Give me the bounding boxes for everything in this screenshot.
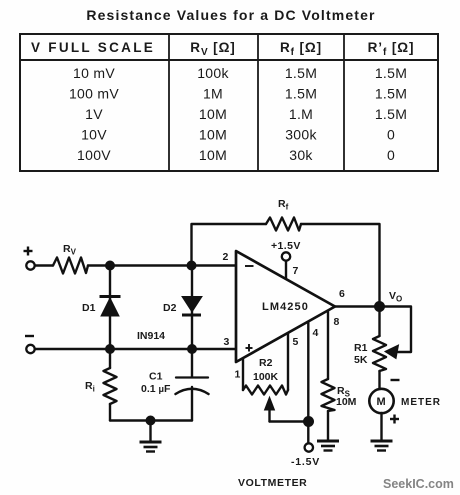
svg-text:Resistance Values for a DC Vol: Resistance Values for a DC Voltmeter xyxy=(86,7,375,23)
svg-text:4: 4 xyxy=(313,327,319,339)
svg-text:C1: C1 xyxy=(149,371,163,383)
svg-text:5K: 5K xyxy=(354,354,368,366)
svg-text:0.1 μF: 0.1 μF xyxy=(141,383,171,395)
svg-text:RV [Ω]: RV [Ω] xyxy=(190,40,235,58)
svg-text:10M: 10M xyxy=(199,106,227,122)
svg-text:D2: D2 xyxy=(163,302,177,314)
svg-text:10M: 10M xyxy=(199,127,227,143)
svg-text:1.5M: 1.5M xyxy=(285,86,317,102)
svg-text:300k: 300k xyxy=(285,127,317,143)
svg-text:100k: 100k xyxy=(197,65,229,81)
svg-text:D1: D1 xyxy=(82,302,96,314)
svg-text:1.M: 1.M xyxy=(289,106,313,122)
svg-text:1.5M: 1.5M xyxy=(375,106,407,122)
svg-text:IN914: IN914 xyxy=(137,330,165,342)
svg-text:VOLTMETER: VOLTMETER xyxy=(238,477,307,489)
svg-text:7: 7 xyxy=(293,265,299,277)
svg-text:6: 6 xyxy=(339,288,345,300)
svg-text:1.5M: 1.5M xyxy=(375,65,407,81)
svg-text:V FULL SCALE: V FULL SCALE xyxy=(31,40,155,55)
svg-text:+1.5V: +1.5V xyxy=(271,240,301,252)
svg-text:100 mV: 100 mV xyxy=(69,86,119,102)
svg-text:1.5M: 1.5M xyxy=(375,86,407,102)
svg-text:30k: 30k xyxy=(289,147,313,163)
svg-text:LM4250: LM4250 xyxy=(262,301,309,313)
svg-text:10V: 10V xyxy=(81,127,107,143)
svg-text:10M: 10M xyxy=(199,147,227,163)
svg-text:R2: R2 xyxy=(259,357,273,369)
svg-text:METER: METER xyxy=(401,397,441,408)
svg-text:100V: 100V xyxy=(77,147,111,163)
svg-text:1: 1 xyxy=(235,369,241,381)
svg-text:8: 8 xyxy=(334,316,340,328)
svg-text:VO: VO xyxy=(389,290,402,304)
svg-text:0: 0 xyxy=(387,127,395,143)
svg-text:2: 2 xyxy=(223,251,229,263)
svg-text:1M: 1M xyxy=(203,86,223,102)
svg-text:10M: 10M xyxy=(336,396,357,408)
svg-text:M: M xyxy=(377,396,386,408)
svg-text:5: 5 xyxy=(293,336,299,348)
svg-text:Rf [Ω]: Rf [Ω] xyxy=(280,40,322,58)
svg-text:0: 0 xyxy=(387,147,395,163)
svg-text:R’f [Ω]: R’f [Ω] xyxy=(368,40,415,58)
svg-text:Ri: Ri xyxy=(85,380,95,394)
svg-text:Rf: Rf xyxy=(278,198,289,212)
svg-text:1V: 1V xyxy=(85,106,103,122)
svg-text:-1.5V: -1.5V xyxy=(291,456,320,468)
svg-text:10 mV: 10 mV xyxy=(73,65,115,81)
svg-text:100K: 100K xyxy=(253,371,279,383)
svg-text:3: 3 xyxy=(224,336,230,348)
svg-text:1.5M: 1.5M xyxy=(285,65,317,81)
svg-text:RV: RV xyxy=(63,243,77,257)
svg-text:SeekIC.com: SeekIC.com xyxy=(383,477,454,491)
svg-text:R1: R1 xyxy=(354,342,368,354)
